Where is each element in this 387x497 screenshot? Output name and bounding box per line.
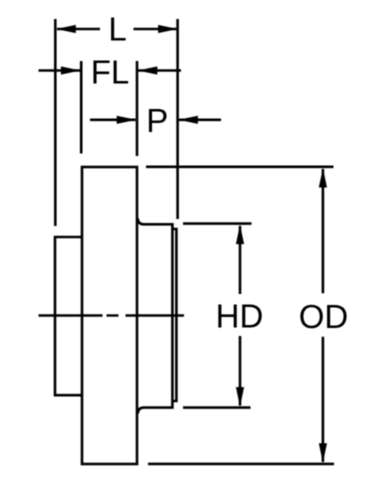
dimension line OD lower segment	[322, 337, 325, 462]
extension line OD top	[146, 166, 334, 169]
dimension line HD upper segment	[239, 226, 242, 294]
svg-text:HD: HD	[216, 298, 264, 335]
P left leader line	[90, 119, 136, 122]
arrowhead OD up	[319, 168, 327, 188]
arrowhead L left	[56, 25, 76, 33]
arrowhead FL left	[61, 66, 81, 74]
dimension line L left segment	[57, 28, 100, 31]
extension line OD bottom	[148, 463, 334, 466]
arrowhead P left	[117, 116, 137, 124]
extension line HD top	[183, 222, 252, 225]
centerline dash 1	[39, 314, 103, 316]
FL left leader line	[39, 69, 81, 72]
arrowhead HD up	[236, 225, 244, 245]
extension line FL right	[136, 61, 139, 156]
FL right leader line	[138, 69, 181, 72]
centerline dash 2	[107, 314, 119, 316]
hub outline with fillets	[138, 218, 173, 413]
bearing inner ring end	[172, 229, 176, 401]
extension line L right	[176, 19, 179, 219]
centerline dash 3	[126, 314, 185, 316]
flange outline	[82, 167, 137, 464]
svg-text:OD: OD	[299, 298, 349, 335]
P right leader line	[179, 119, 221, 122]
extension line HD bottom	[183, 406, 251, 409]
extension line FL left	[80, 61, 83, 154]
dimension line OD upper segment	[322, 169, 325, 293]
arrowhead FL right	[138, 66, 158, 74]
arrowhead P right	[178, 116, 198, 124]
arrowhead OD down	[319, 443, 327, 463]
arrowhead HD down	[236, 387, 244, 407]
dimension line HD lower segment	[239, 336, 242, 406]
arrowhead L right	[158, 25, 178, 33]
dimension line L right segment	[134, 28, 177, 31]
svg-text:FL: FL	[91, 54, 130, 91]
left hub outline	[55, 237, 82, 395]
svg-text:L: L	[108, 11, 126, 48]
extension line L left	[54, 19, 57, 226]
svg-text:P: P	[146, 102, 168, 139]
